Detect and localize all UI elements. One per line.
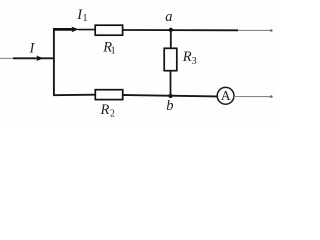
svg-text:2: 2 (110, 109, 115, 120)
resistor R2 (95, 90, 122, 100)
svg-text:A: A (221, 88, 231, 103)
wire: top branch shaft with current I1 (53, 28, 74, 31)
node a (169, 28, 173, 32)
ammeter A (217, 87, 234, 104)
svg-text:1: 1 (111, 46, 116, 57)
arrow for current I (36, 56, 43, 62)
wire: R2 to node b to ammeter (123, 95, 218, 96)
wire: R1 to node a and beyond (123, 29, 239, 31)
node b (168, 94, 172, 98)
wire: faint continuation top right (238, 29, 271, 31)
svg-text:R: R (100, 102, 110, 118)
resistor R3 (164, 48, 177, 70)
svg-text:b: b (166, 98, 173, 114)
wire: bottom left segment (53, 94, 96, 97)
svg-text:1: 1 (83, 13, 88, 24)
wire: arrow tip to R1 (78, 29, 96, 31)
resistor R1 (95, 25, 122, 35)
wire: left input wire with current I (13, 57, 55, 59)
wire: node a down to R3 (170, 30, 172, 49)
svg-text:R: R (182, 49, 192, 65)
arrow for current I1 (71, 27, 78, 33)
node: left junction vertical wire (53, 29, 55, 96)
svg-text:a: a (165, 9, 172, 25)
wire: left entry faint segment (0, 57, 14, 59)
wire: faint continuation bottom right (234, 96, 271, 98)
wire: R3 down to node b (170, 71, 172, 97)
svg-text:I: I (29, 41, 36, 57)
svg-text:3: 3 (192, 56, 197, 67)
